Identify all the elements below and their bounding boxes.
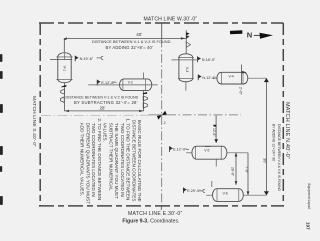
vessel V-1 (50, 53, 73, 83)
origin bowtie marker (162, 111, 167, 115)
dimension V-5 right to V-6 (7'-6") (247, 153, 249, 195)
V-6 right centerline to 36' dim (243, 194, 266, 196)
V-2 right leader down (143, 73, 145, 79)
svg-text:ADD THEIR NUMERICAL VALUES.: ADD THEIR NUMERICAL VALUES. (80, 123, 85, 196)
svg-text:N.12’-6”: N.12’-6” (202, 76, 216, 80)
svg-text:BASIC RULE FOR CALCULATING THE: BASIC RULE FOR CALCULATING THE (137, 120, 142, 202)
dimension above V-5 (12'-6") (215, 115, 217, 142)
svg-text:36’: 36’ (263, 158, 268, 163)
V-4 top pennant (242, 71, 247, 74)
svg-text:DISTANCE BETWEEN V-4 & V-6 IS: DISTANCE BETWEEN V-4 & V-6 IS FOUND (277, 124, 281, 192)
spine shadow blobs left edge (0, 54, 3, 205)
svg-text:BY ADDING 32’+8’= 40’: BY ADDING 32’+8’= 40’ (106, 45, 154, 50)
vessel V-4 (217, 72, 248, 84)
V-5 right centerline (227, 152, 248, 154)
V-4 vertical line (241, 65, 243, 85)
svg-text:VALUES.: VALUES. (103, 123, 108, 142)
V-1 pennant flag open 2 (60, 97, 64, 103)
V-3 horizontal centerline (172, 59, 197, 61)
svg-text:DIFFERENT QUADRANTS YOU MUST: DIFFERENT QUADRANTS YOU MUST (85, 123, 90, 204)
svg-text:BY SUBTRACTING 32’-4’= 28’: BY SUBTRACTING 32’-4’= 28’ (74, 100, 138, 105)
V-3 centerline blob (186, 35, 189, 39)
svg-text:E.12’-6”: E.12’-6” (101, 81, 115, 85)
svg-text:40’: 40’ (136, 32, 142, 37)
svg-text:N.19’-6”: N.19’-6” (80, 57, 94, 61)
svg-text:TWO COORDINATES LOCATED IN: TWO COORDINATES LOCATED IN (91, 123, 96, 197)
flag E.29'-0" for V-6 (182, 188, 184, 194)
svg-text:V-2: V-2 (128, 80, 133, 84)
V-5 bottom stub (215, 159, 217, 166)
svg-text:7’-6”: 7’-6” (244, 166, 248, 173)
svg-text:V-1: V-1 (63, 66, 67, 72)
match line border left (39, 23, 41, 206)
match line border bottom (E.30'-0") (39, 205, 284, 207)
centerline horizontal (E-W axis) faint left part (41, 114, 149, 116)
V-3 bottom stub (185, 82, 187, 91)
V-1 bottom leader (63, 83, 65, 111)
vessel V-3 (178, 54, 194, 82)
svg-text:2. TO FIND THE DISTANCE BETWEE: 2. TO FIND THE DISTANCE BETWEEN (97, 118, 102, 200)
leader tick for E.30 label (160, 206, 162, 210)
V-1 pennant flag open 1 (61, 89, 65, 94)
match line border top (W.30'-0") (39, 22, 283, 24)
dimension 40' line (64, 30, 186, 54)
dim 40' arrowheads (63, 37, 67, 40)
vessel V-5 (192, 146, 227, 159)
V-4 right centerline (248, 77, 267, 79)
svg-text:12’-6”: 12’-6” (212, 128, 216, 136)
svg-text:DISTANCE BETWEEN V-1 & V-3 IS: DISTANCE BETWEEN V-1 & V-3 IS FOUND (92, 39, 171, 44)
dimension V-5 to V-6 (28'-6") (235, 153, 237, 185)
dimension 28' line (64, 110, 143, 112)
svg-text:SUBTRACT THEIR NUMERICAL: SUBTRACT THEIR NUMERICAL (108, 123, 113, 191)
flag N.12'-6" for V-4 (197, 74, 199, 80)
north arrow (230, 30, 273, 39)
svg-text:28’: 28’ (100, 106, 106, 111)
svg-text:V-3: V-3 (185, 67, 189, 73)
svg-text:DISTANCE BETWEEN COORDINATES: DISTANCE BETWEEN COORDINATES (131, 120, 136, 202)
svg-text:THE SAME QUADRANT YOU MUST: THE SAME QUADRANT YOU MUST (114, 123, 119, 199)
svg-text:TWO COORDINATES LOCATED IN: TWO COORDINATES LOCATED IN (120, 123, 125, 197)
svg-text:V-4: V-4 (229, 75, 234, 79)
flag N.19'-6" (74, 56, 76, 62)
V-2 centerline (88, 84, 157, 86)
match line border right (N.40'-0") (282, 23, 284, 206)
V-3 centerline open flag (186, 42, 190, 47)
V-2 pennant flag open 1 (143, 96, 147, 100)
flag E.12'-6" (96, 80, 98, 86)
svg-text:197: 197 (306, 222, 311, 230)
svg-text:N: N (247, 30, 252, 39)
V-1 bottom black tick (61, 85, 66, 88)
small mark left of V-5 top (205, 146, 211, 148)
svg-text:BY ADDING 12’+24’= 36’: BY ADDING 12’+24’= 36’ (271, 124, 275, 162)
vessel V-6 (213, 189, 244, 202)
V-6 left centerline (206, 194, 212, 196)
svg-text:2: 2 (164, 121, 166, 125)
svg-text:N.18’-0”: N.18’-0” (202, 58, 216, 62)
note distance V-4 V-6 (rotated block) (271, 124, 280, 192)
basic rule notes block (rotated) (80, 118, 143, 204)
svg-text:V-5: V-5 (204, 149, 209, 153)
V-3 centerline top flag solid (186, 32, 189, 35)
svg-text:MATCH LINE E.30’-0”: MATCH LINE E.30’-0” (128, 211, 183, 217)
svg-text:Equipment Layout: Equipment Layout (307, 184, 311, 210)
vessel V-2 (120, 79, 152, 91)
dimension 36' vertical (265, 78, 267, 195)
svg-text:28’-6”: 28’-6” (231, 167, 235, 177)
svg-text:MATCH LINE S.40’-0”: MATCH LINE S.40’-0” (31, 96, 37, 147)
svg-text:V-6: V-6 (223, 191, 228, 195)
svg-text:E.12’-0”: E.12’-0” (173, 148, 187, 152)
flag E.12'-0" for V-5 (169, 146, 171, 152)
centerline vertical (N-S axis) (161, 23, 163, 38)
svg-text:DISTANCE BETWEEN V-1 & V-2 IS: DISTANCE BETWEEN V-1 & V-2 IS FOUND (66, 96, 139, 100)
flag N.18'-0" (197, 56, 199, 62)
svg-text:2’-6”: 2’-6” (238, 87, 243, 96)
svg-text:MATCH LINE W.30’-0”: MATCH LINE W.30’-0” (144, 17, 198, 23)
svg-text:MATCH LINE N.40’-0”: MATCH LINE N.40’-0” (284, 102, 290, 159)
svg-text:Figure 9-3. Coordinates.: Figure 9-3. Coordinates. (122, 218, 179, 224)
svg-text:1. TO FIND THE DISTANCE BETWEE: 1. TO FIND THE DISTANCE BETWEEN (126, 118, 131, 200)
V-5 left centerline (186, 152, 192, 154)
V-6 small top stub (211, 181, 213, 187)
V-2 bottom black tick (143, 92, 147, 94)
V-2 pennant flag open 2 (143, 103, 147, 108)
centerline horizontal (E-W axis) (149, 114, 168, 116)
